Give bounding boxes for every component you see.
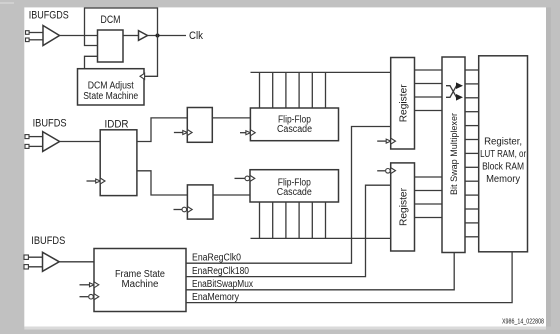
wires R1 to bit swap multiplexer [415, 70, 443, 111]
svg-text:DCM: DCM [101, 14, 121, 26]
svg-text:Cascade: Cascade [277, 187, 312, 198]
wire U3 to IDDR [60, 141, 101, 143]
input pad P2 [26, 38, 30, 42]
svg-text:Register: Register [399, 187, 410, 226]
IDDR block [100, 130, 137, 196]
wires R2 to bit swap multiplexer [415, 177, 443, 218]
wire pad P5 to buffer U4 [28, 256, 44, 258]
bus wire FFC1 to register R1 [251, 71, 391, 73]
wire FF2 to FFC2 [213, 194, 250, 196]
wire pad P1 to buffer U1 [29, 32, 45, 34]
svg-text:Cascade: Cascade [277, 124, 312, 135]
register R1 block [391, 58, 415, 150]
FF2 inverted clock stub [174, 207, 193, 213]
svg-text:IBUFGDS: IBUFGDS [29, 9, 69, 21]
IDDR clock stub [87, 178, 106, 184]
R2 inverted clock stub [377, 168, 395, 174]
input pad P1 [26, 31, 30, 35]
DCM block [98, 30, 124, 62]
mux swap symbol [446, 82, 463, 100]
wire U1 to DCM [60, 35, 98, 37]
wire FF1 to FFC1 [212, 117, 250, 119]
wire EnaBitSwapMux to bit swap multiplexer [186, 253, 454, 290]
wire DCM to buffer U2 [123, 35, 139, 37]
FF1 clock stub [174, 130, 192, 136]
frame state machine block [94, 249, 186, 312]
wire U2 to Clk node [148, 35, 187, 37]
wires bit swap multiplexer to memory [465, 70, 479, 237]
bit swap multiplexer block [442, 57, 465, 253]
svg-text:State Machine: State Machine [83, 91, 138, 102]
flip-flop FF1 [187, 108, 212, 143]
svg-text:IBUFDS: IBUFDS [33, 118, 67, 130]
wire pad P2 to buffer U1 [29, 39, 45, 41]
junction Clk [156, 34, 160, 38]
bus FFC1 to top register verticals [260, 72, 326, 108]
Flip-Flop Cascade block FFC2 [250, 170, 339, 202]
svg-text:Clk: Clk [189, 30, 203, 42]
svg-text:EnaRegClk180: EnaRegClk180 [192, 266, 249, 277]
svg-text:Register: Register [399, 84, 410, 123]
FSM inverted clock stub [80, 294, 99, 300]
svg-text:Machine: Machine [122, 279, 159, 290]
FFC2 inverted clock stub [235, 175, 255, 181]
wire pad P3 to buffer U3 [29, 136, 45, 138]
wire pad P6 to buffer U4 [28, 266, 44, 268]
buffer U4 IBUFDS [43, 252, 60, 271]
wire IDDR bottom output to FF2 [137, 171, 188, 195]
buffer U3 IBUFDS [43, 132, 60, 152]
input pad P6 [24, 265, 28, 269]
bus wire FFC2 to register R2 [251, 237, 391, 239]
wire pad P4 to buffer U3 [29, 145, 45, 147]
R1 clock stub [377, 138, 395, 144]
input pad P5 [24, 255, 28, 259]
svg-text:X986_14_022808: X986_14_022808 [502, 318, 544, 325]
wire feedback Clk to DCM input [85, 8, 158, 46]
wire Clk to DCM adjust state machine [145, 36, 158, 77]
input pad P4 [25, 144, 29, 148]
DCM Adjust State Machine block [78, 69, 145, 105]
Flip-Flop Cascade block FFC1 [250, 108, 338, 141]
svg-text:EnaMemory: EnaMemory [192, 292, 239, 303]
svg-text:IDDR: IDDR [105, 119, 129, 131]
buffer U2 [139, 31, 148, 41]
svg-text:Block RAM: Block RAM [482, 162, 524, 173]
svg-text:IBUFDS: IBUFDS [31, 235, 65, 247]
register R2 block [391, 163, 415, 251]
svg-text:Bit Swap Multiplexer: Bit Swap Multiplexer [449, 113, 460, 195]
memory block [479, 56, 528, 252]
flip-flop FF2 [187, 185, 213, 219]
FSM clock stub [80, 282, 99, 288]
wire EnaRegClk180 to register R2 [186, 185, 391, 276]
svg-text:LUT RAM, or: LUT RAM, or [480, 149, 527, 160]
wire DCM to DCM adjust state machine [85, 56, 98, 68]
FFC1 clock stub [240, 130, 255, 136]
svg-text:Register,: Register, [484, 137, 522, 148]
arrowhead into DCM adjust state machine [140, 73, 145, 79]
svg-text:EnaRegClk0: EnaRegClk0 [192, 252, 241, 263]
bus FFC2 to bottom register verticals [260, 202, 326, 238]
wire EnaMemory to memory [186, 252, 512, 303]
wire IDDR top output to FF1 [137, 118, 187, 142]
input pad P3 [25, 135, 29, 139]
svg-text:Memory: Memory [486, 174, 520, 185]
svg-text:EnaBitSwapMux: EnaBitSwapMux [192, 279, 253, 290]
wire U4 to frame state machine [59, 261, 94, 263]
wire EnaRegClk0 to register R1 [186, 127, 391, 264]
buffer U1 IBUFGDS [43, 26, 60, 46]
